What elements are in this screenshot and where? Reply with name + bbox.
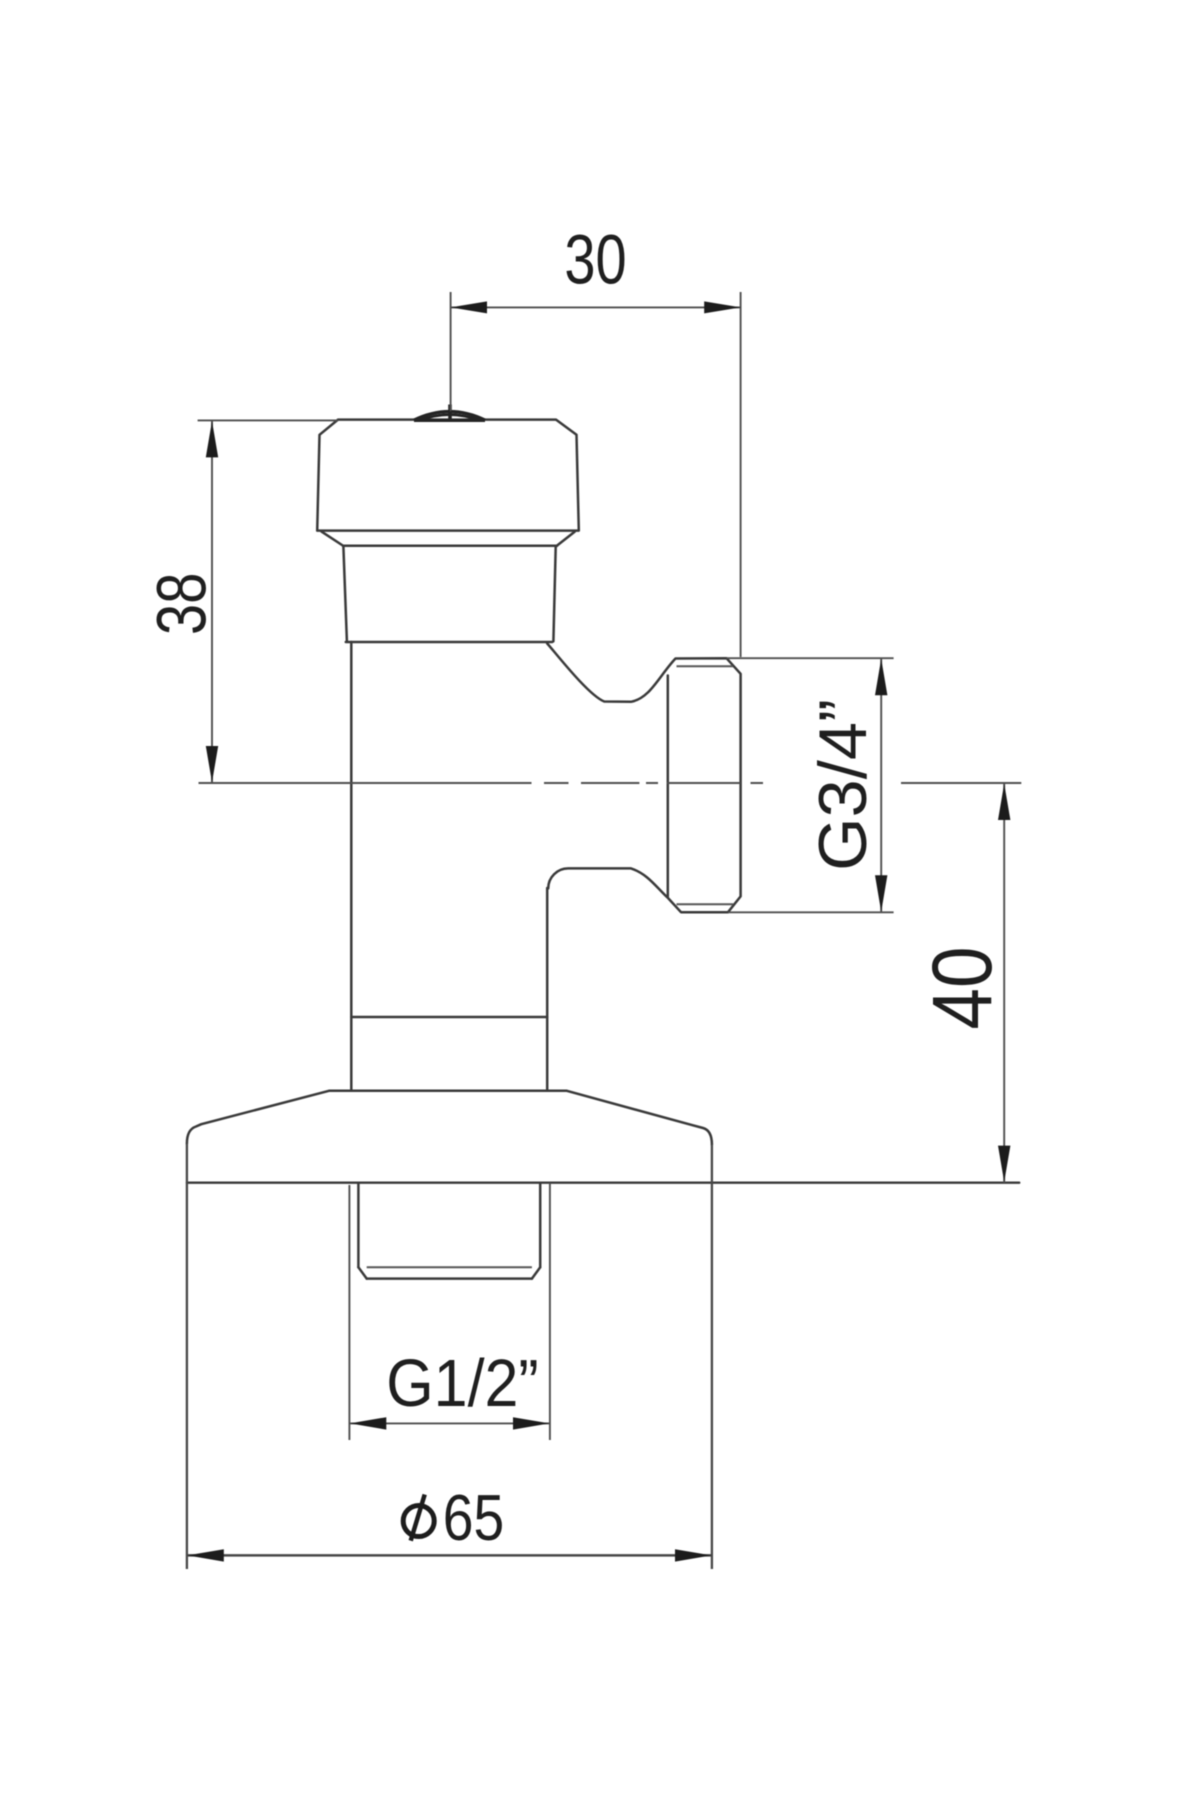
dim 30 extension line left <box>450 292 452 411</box>
handle screw dome inner arc <box>420 415 479 421</box>
diameter symbol circle <box>403 1506 434 1537</box>
dim 30 arrowhead right <box>704 301 740 313</box>
valve handle cap <box>317 420 579 531</box>
dim 38 arrowhead top <box>206 421 218 457</box>
flange bottom edge with 40-dim extension <box>187 1182 1019 1184</box>
valve body left side <box>350 642 353 1091</box>
tail pipe left side <box>357 1183 360 1267</box>
dim dia65 dimension line <box>187 1554 712 1557</box>
dim 30 arrowhead left <box>451 301 487 313</box>
dim G1/2 arrowhead right <box>513 1417 549 1429</box>
dim G3/4 arrowhead top <box>875 659 887 695</box>
tail pipe right side <box>539 1183 542 1267</box>
dim 40 dimension line <box>1003 783 1005 1183</box>
centre line dash 5 through nut <box>667 782 740 784</box>
dim G3/4 dimension line <box>880 658 882 912</box>
centre line dash 4 <box>646 782 658 784</box>
bonnet bottom edge <box>346 641 552 644</box>
cap-to-bonnet chamfer right <box>557 532 575 546</box>
dim 30 dimension line <box>451 306 741 308</box>
dim G3/4 arrowhead bottom <box>875 875 887 911</box>
diameter symbol slash <box>411 1495 425 1541</box>
dim 40 extension line top <box>901 782 1021 784</box>
dim dia65 extension line left <box>186 1144 188 1570</box>
svg-text:G1/2”: G1/2” <box>386 1345 538 1420</box>
cap-to-bonnet chamfer left <box>322 532 344 546</box>
wall flange top edge and shoulders <box>187 1091 712 1145</box>
tail pipe thread chamfer line <box>367 1266 532 1268</box>
dim 38 extension line top <box>198 419 338 421</box>
dim G1/2 extension line right <box>549 1183 551 1440</box>
dim dia65 arrowhead right <box>675 1549 711 1561</box>
svg-text:30: 30 <box>564 222 626 299</box>
tail pipe bottom edge <box>367 1277 532 1280</box>
dim dia65 arrowhead left <box>187 1549 223 1561</box>
dim G1/2 arrowhead left <box>350 1417 386 1429</box>
dim G3/4 extension line bottom <box>728 911 894 913</box>
svg-text:G3/4”: G3/4” <box>805 699 881 871</box>
bonnet right side <box>553 547 555 642</box>
handle screw dome base <box>414 419 485 422</box>
union nut chamfer line top <box>677 665 734 667</box>
union nut chamfer line bottom <box>677 903 734 905</box>
handle screw slot <box>448 405 452 421</box>
dim 38 dimension line <box>211 420 213 783</box>
bonnet left side <box>343 547 347 642</box>
bonnet top edge <box>343 545 557 548</box>
valve body joint line <box>351 1016 547 1019</box>
dim dia65 extension line right <box>711 1145 713 1570</box>
centre line dash 2 <box>544 782 569 784</box>
dim 38 arrowhead bottom <box>206 746 218 782</box>
valve body right side lower <box>546 888 549 1091</box>
handle screw dome outer arc <box>414 412 485 421</box>
union nut left face <box>667 676 670 897</box>
dim 40 arrowhead bottom <box>998 1146 1010 1182</box>
centre line dash 3 <box>581 782 639 784</box>
dim G1/2 extension line left <box>348 1185 350 1440</box>
svg-text:40: 40 <box>915 946 1009 1029</box>
dim G3/4 extension line top <box>727 657 894 659</box>
tail pipe end chamfer right <box>532 1267 540 1278</box>
svg-text:65: 65 <box>443 1481 504 1554</box>
tail pipe end chamfer left <box>358 1267 366 1278</box>
dim 40 arrowhead top <box>998 784 1010 820</box>
dim 30 extension line right <box>740 292 742 657</box>
side outlet with G3/4 union nut outline <box>547 644 740 913</box>
centre line dash 1 <box>199 782 532 784</box>
dim G1/2 dimension line <box>349 1422 550 1424</box>
svg-text:38: 38 <box>144 573 221 635</box>
centre line dash 6 <box>751 782 764 784</box>
